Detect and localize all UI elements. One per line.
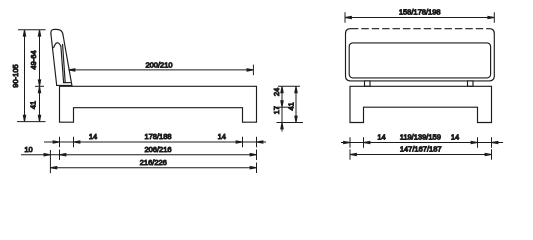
dimension 49-64: vertical line upper segment with label <box>29 30 44 87</box>
svg-text:14: 14 <box>218 132 226 141</box>
dimension row 216/226 <box>50 158 256 173</box>
svg-text:14: 14 <box>89 132 97 141</box>
dimension 41 (side view): vertical line lower segment with label <box>17 86 46 121</box>
svg-text:10: 10 <box>24 145 32 154</box>
front view: headboard outer outline (solid sides and bottom) <box>346 29 495 81</box>
front view: headboard inner cushion panel <box>349 43 490 78</box>
svg-text:17: 17 <box>272 106 281 114</box>
front view: headboard hidden top edge (dashed) <box>352 28 489 30</box>
side view: headboard front edge <box>63 35 72 86</box>
svg-text:119/139/159: 119/139/159 <box>400 133 441 142</box>
dimension row 14 / 119-139-159 / 14 (front view) <box>341 133 503 148</box>
side view: headboard rounded top <box>51 29 63 35</box>
side view: headboard bottom edge <box>57 84 72 86</box>
svg-text:24: 24 <box>272 88 281 96</box>
svg-text:90-105: 90-105 <box>11 64 20 87</box>
svg-text:49-64: 49-64 <box>29 50 38 69</box>
dimension 90-105: vertical line with arrows and label <box>11 30 46 122</box>
side view: cushion seam line 1 <box>61 46 64 82</box>
svg-text:147/167/187: 147/167/187 <box>400 145 442 154</box>
dimension 158/178/198: line, ticks, arrows, label <box>345 8 494 23</box>
side view: cushion bottom edge <box>64 82 71 84</box>
dimension 200/210: line, arrows, tick, label <box>69 61 254 76</box>
dimension row 147/167/187 <box>350 145 492 160</box>
side view: cushion lower roll arch <box>54 43 61 48</box>
dimension 41 (front view): full-height line with label <box>287 86 298 122</box>
svg-text:216/226: 216/226 <box>140 158 167 167</box>
svg-text:158/178/198: 158/178/198 <box>399 8 441 17</box>
dimension 24: upper segment of left line with label <box>272 86 300 107</box>
svg-text:206/216: 206/216 <box>144 145 171 154</box>
svg-text:200/210: 200/210 <box>145 61 172 70</box>
side view: bed frame outline with legs <box>60 86 257 122</box>
front view: right headboard foot <box>468 81 474 86</box>
front view: bed frame outline with legs <box>350 86 492 122</box>
front view: left headboard foot <box>365 81 371 86</box>
svg-text:41: 41 <box>287 102 296 110</box>
svg-text:14: 14 <box>377 133 385 142</box>
dimension 17: lower segment with outside arrow below floor tick <box>272 106 303 131</box>
svg-text:41: 41 <box>29 101 38 109</box>
svg-text:178/188: 178/188 <box>144 132 171 141</box>
dimension 10 (headboard overhang) and row 206/216 <box>21 145 257 173</box>
side view: cushion seam line 2 <box>63 45 66 83</box>
side view: headboard back edge <box>51 34 57 86</box>
dimension row 14 / 178-188 / 14 (side view) <box>44 132 266 147</box>
svg-text:14: 14 <box>451 133 459 142</box>
